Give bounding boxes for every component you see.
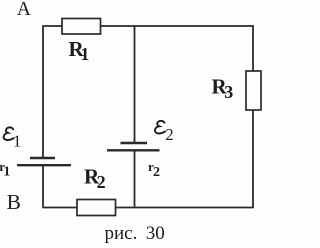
- svg-text:1: 1: [13, 131, 21, 150]
- svg-text:1: 1: [80, 44, 89, 64]
- svg-text:2: 2: [153, 165, 160, 180]
- svg-text:2: 2: [97, 172, 106, 192]
- svg-text:B: B: [7, 190, 21, 214]
- svg-text:1: 1: [3, 165, 10, 180]
- svg-text:30: 30: [146, 223, 165, 244]
- svg-text:рис.: рис.: [105, 223, 138, 244]
- svg-text:A: A: [17, 0, 31, 20]
- svg-text:2: 2: [165, 125, 173, 144]
- svg-text:3: 3: [224, 82, 233, 102]
